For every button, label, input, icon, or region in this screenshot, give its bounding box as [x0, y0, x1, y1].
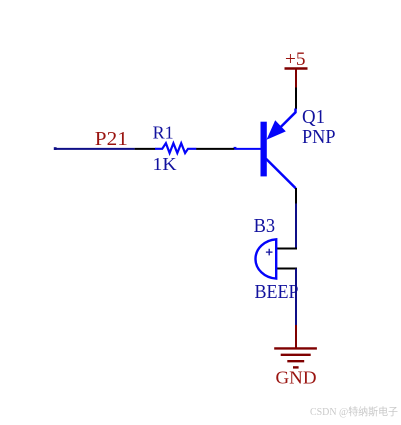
svg-text:CSDN @特纳斯电子: CSDN @特纳斯电子	[310, 405, 398, 418]
svg-text:1K: 1K	[153, 154, 177, 174]
ground bar 3	[287, 360, 304, 362]
buzzer B3 pin 1 stub	[277, 248, 298, 250]
wire P21 horizontal	[54, 148, 135, 150]
svg-text:R1: R1	[153, 123, 174, 143]
svg-text:P21: P21	[95, 128, 128, 150]
power +5 stem	[295, 69, 297, 88]
ground bar 2	[281, 354, 311, 356]
buzzer plus mark	[266, 249, 273, 256]
buzzer B3 pin 2 stub	[277, 268, 298, 270]
wire buzzer to ground	[295, 269, 297, 326]
resistor R1 zigzag	[155, 143, 196, 153]
wire junction marker	[234, 147, 237, 149]
ground bar 1	[274, 347, 317, 349]
wire collector to buzzer	[295, 204, 297, 250]
transistor Q1 emitter diagonal	[279, 109, 296, 129]
svg-text:+5: +5	[285, 49, 306, 70]
transistor Q1 base pin	[234, 148, 260, 150]
transistor Q1 emitter arrowhead	[267, 120, 286, 140]
svg-text:Q1: Q1	[302, 106, 325, 128]
resistor R1 pin 2	[196, 148, 234, 150]
wire endpoint marker	[54, 147, 57, 150]
svg-text:GND: GND	[276, 368, 317, 388]
transistor Q1 collector diagonal	[266, 159, 296, 189]
ground stem	[295, 325, 297, 348]
transistor Q1 base bar	[261, 122, 267, 177]
svg-text:PNP: PNP	[302, 126, 336, 148]
transistor Q1 collector pin stub	[295, 188, 297, 204]
power +5 bar	[285, 67, 308, 69]
svg-text:BEEP: BEEP	[255, 281, 299, 303]
ground bar 4	[293, 366, 299, 368]
buzzer B3 body	[255, 239, 276, 278]
resistor R1 pin 1	[135, 148, 156, 150]
transistor Q1 emitter pin stub	[295, 88, 297, 110]
svg-text:B3: B3	[254, 215, 276, 237]
